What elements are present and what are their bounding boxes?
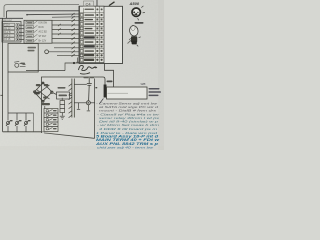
wire drop from top to connector <box>96 0 98 6</box>
connector row label blobs <box>84 14 95 51</box>
below-module wire <box>65 58 78 71</box>
wire stub left <box>0 17 23 19</box>
svg-text:C4: C4 <box>86 1 92 6</box>
long component box B5 <box>107 87 148 99</box>
relay internal text <box>28 47 37 52</box>
branch bus <box>8 112 34 114</box>
handwritten notes block <box>94 101 161 149</box>
tick on rail <box>0 94 2 96</box>
switch row labels <box>39 23 48 43</box>
svg-text:ACC B2: ACC B2 <box>39 31 48 34</box>
ground rail bus <box>3 131 44 133</box>
svg-text:FL2 B: FL2 B <box>4 31 11 34</box>
splice chevron row C <box>72 16 75 19</box>
diode D4 faint <box>33 113 35 132</box>
bar label blob <box>107 81 113 83</box>
handwritten note under module <box>79 65 98 74</box>
dimmer switch X1 <box>34 82 57 102</box>
svg-text:ST RLY: ST RLY <box>39 36 47 38</box>
svg-text:RUN: RUN <box>39 27 44 29</box>
narrow cell strip NS <box>45 98 65 113</box>
side note 3 lines <box>149 88 162 96</box>
svg-text:B+ 12V: B+ 12V <box>39 41 47 43</box>
wire splice chevrons <box>72 19 75 22</box>
fuse label box F1 <box>2 22 21 43</box>
mid-wire colour slashes <box>58 24 61 26</box>
fuse row labels <box>4 24 11 42</box>
connector pin strip <box>80 6 105 62</box>
wire row B <box>27 13 79 16</box>
R1 label blob <box>58 87 68 96</box>
svg-text:F3 15: F3 15 <box>4 38 11 41</box>
svg-text:PWR DIST: PWR DIST <box>2 20 13 22</box>
connector title C4 <box>84 1 94 6</box>
lamp connector circle <box>132 8 140 16</box>
lamp ticks <box>138 6 145 20</box>
svg-text:IGN SW: IGN SW <box>39 23 48 25</box>
lower stub wires <box>45 46 79 70</box>
svg-text:A500: A500 <box>129 1 140 6</box>
resistor block R1 <box>57 92 72 99</box>
wire row C <box>52 16 79 18</box>
left rail wire <box>0 18 94 138</box>
svg-text:F21A: F21A <box>4 24 10 27</box>
cell label blobs <box>53 110 57 129</box>
fuse rows <box>4 23 20 41</box>
resistor bar component <box>104 85 107 98</box>
ground G1 <box>60 113 65 120</box>
D1 label <box>10 120 13 121</box>
junction node A <box>73 62 79 64</box>
relay label blob <box>21 63 26 65</box>
svg-text:F8 30: F8 30 <box>4 27 11 30</box>
svg-text:chld pwr adj 40 - term bw: chld pwr adj 40 - term bw <box>97 145 154 149</box>
node junction B <box>26 14 28 16</box>
paper background <box>0 0 164 150</box>
diode D2 <box>15 113 19 132</box>
svg-text:WB: WB <box>141 82 146 86</box>
module C4 box <box>79 6 123 63</box>
cell symbols <box>46 110 52 130</box>
bottom rows <box>80 54 103 61</box>
cap label text <box>84 77 95 78</box>
D2 label <box>19 120 22 121</box>
pointer line <box>99 99 103 105</box>
switch cell column CC <box>44 109 58 132</box>
tick E <box>95 87 97 88</box>
capacitor pair right of strip <box>74 101 94 111</box>
connector strip C2 <box>69 79 87 118</box>
bulb label <box>135 22 144 24</box>
wires fuse to switch box <box>19 25 24 39</box>
relay box K1 <box>8 44 38 73</box>
wire from module bottom <box>105 64 114 88</box>
D3 label <box>28 120 31 121</box>
splice chevron row B <box>72 13 75 16</box>
diode D1 <box>6 72 10 132</box>
small x in circle <box>88 102 90 104</box>
switch box S1 <box>24 20 52 43</box>
lower module box M3 <box>42 77 106 138</box>
switch rows <box>26 21 37 42</box>
faint tick right of module <box>128 41 131 44</box>
bulb socket <box>129 25 139 45</box>
capacitor C1 above <box>87 78 92 101</box>
dimmer label blobs <box>34 84 50 105</box>
svg-text:F14 5: F14 5 <box>4 35 11 38</box>
wire from relay box right <box>26 70 65 72</box>
relay coil symbol <box>14 61 25 67</box>
wire arrow top right of module <box>109 2 115 6</box>
wires switch box to module <box>52 19 79 44</box>
border outer faint line <box>4 5 79 17</box>
wire row A <box>7 11 80 18</box>
bulb ticks <box>129 37 141 47</box>
pin squares and cell marks <box>80 14 103 62</box>
left pin squares <box>80 14 83 57</box>
module M3 interior <box>42 77 94 137</box>
diode D3 <box>24 113 28 132</box>
